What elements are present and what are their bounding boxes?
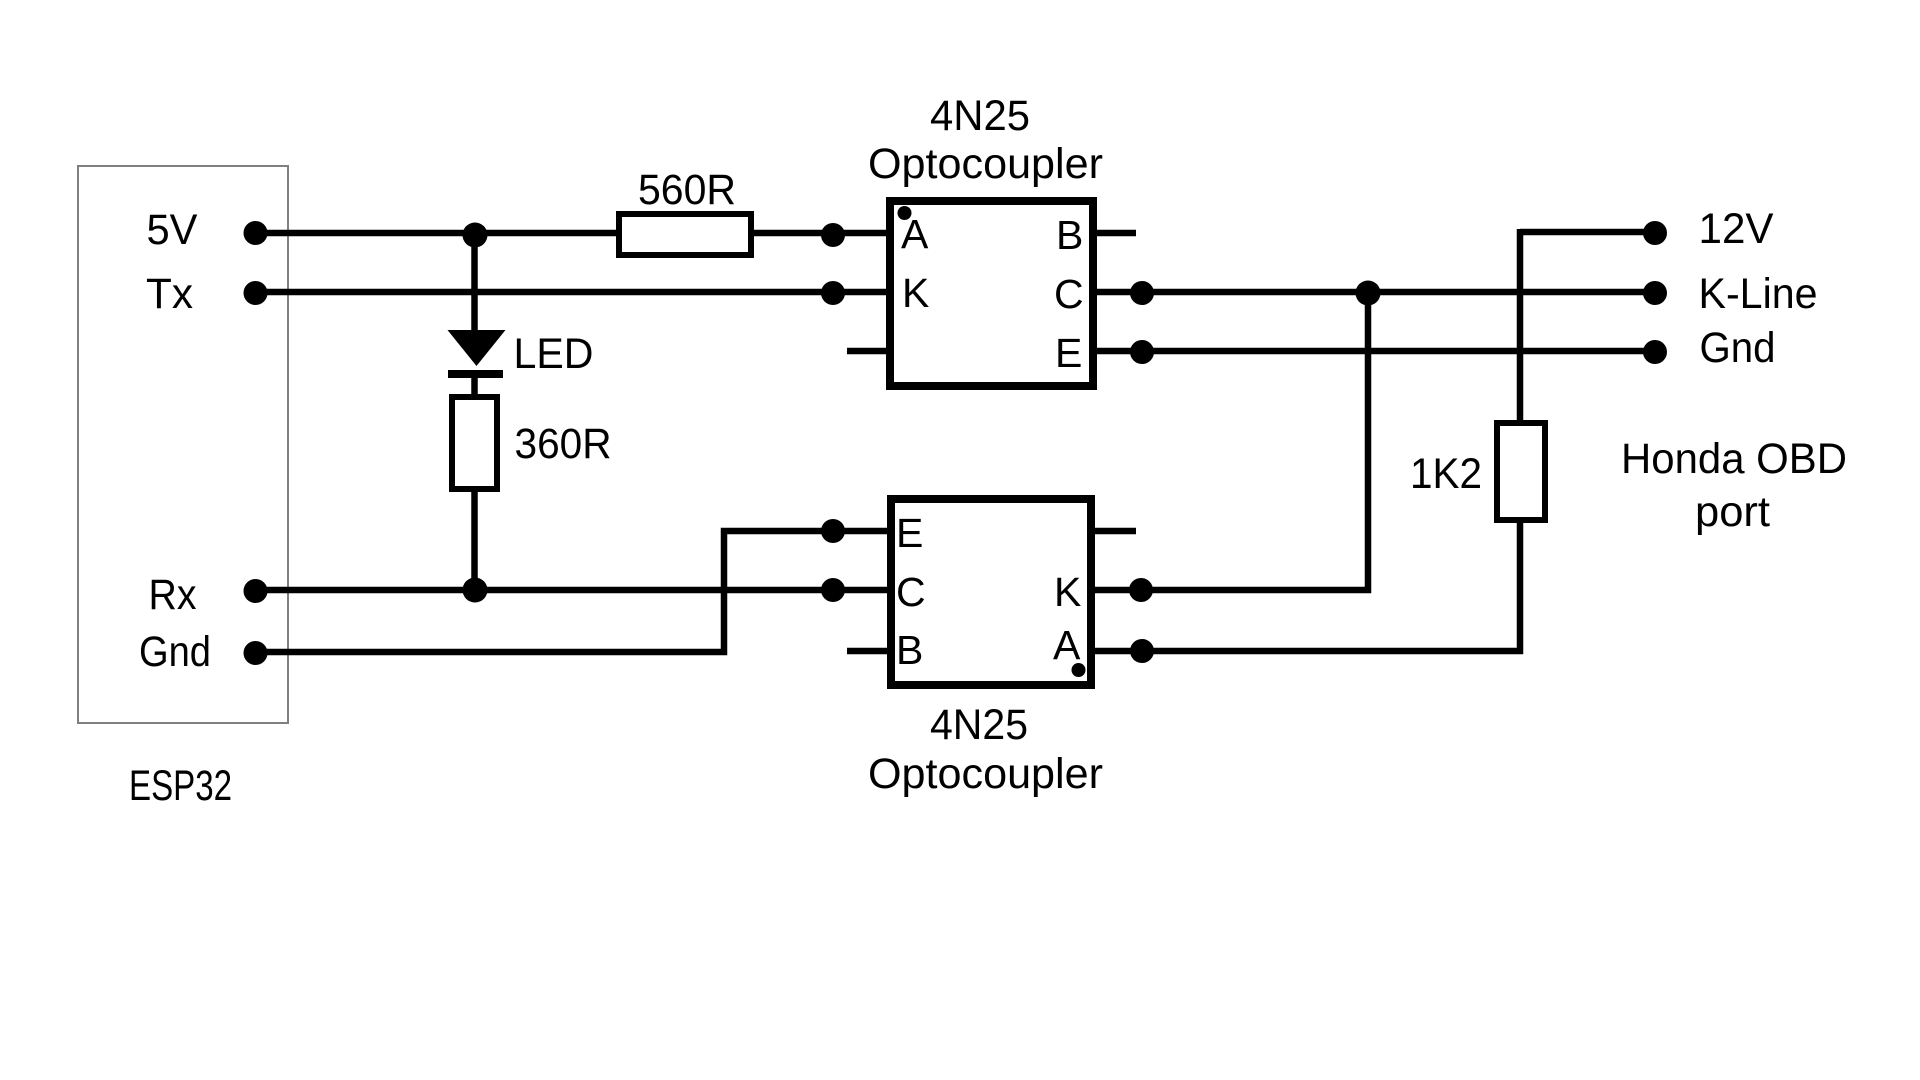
node opto1 C out bbox=[1130, 281, 1154, 305]
wire 5V to 560R bbox=[255, 230, 619, 237]
svg-text:E: E bbox=[896, 510, 923, 556]
node opto2 C bbox=[821, 578, 845, 602]
node opto1 E out bbox=[1130, 340, 1154, 364]
svg-text:C: C bbox=[896, 569, 926, 615]
svg-text:560R: 560R bbox=[638, 166, 736, 214]
resistor 1K2 bbox=[1497, 423, 1545, 520]
svg-text:A: A bbox=[901, 211, 929, 257]
wire 12V to pullup column bbox=[1520, 229, 1655, 236]
svg-text:Optocoupler: Optocoupler bbox=[868, 140, 1103, 188]
U2 pin-1 marker bbox=[1072, 663, 1086, 677]
terminal Rx bbox=[244, 579, 268, 603]
svg-text:port: port bbox=[1695, 488, 1770, 536]
resistor 560R bbox=[619, 214, 751, 255]
node opto1 K bbox=[821, 281, 845, 305]
svg-text:K: K bbox=[902, 270, 929, 316]
wire 5V junction down to LED bbox=[471, 233, 478, 333]
optocoupler U2 body bbox=[891, 499, 1091, 685]
wire opto2 K to K-Line junction bbox=[1091, 293, 1368, 590]
U1 left bottom stub bbox=[847, 348, 890, 355]
U2 pin B stub bbox=[847, 648, 891, 655]
terminal 5V bbox=[244, 221, 268, 245]
svg-text:5V: 5V bbox=[147, 206, 198, 254]
node K-Line junction bbox=[1356, 281, 1381, 306]
svg-text:K-Line: K-Line bbox=[1699, 270, 1818, 318]
wire LED to 360R bbox=[471, 374, 478, 397]
wire 360R to Rx line bbox=[471, 489, 478, 590]
svg-text:Gnd: Gnd bbox=[1700, 324, 1776, 372]
svg-text:K: K bbox=[1054, 569, 1081, 615]
terminal 12V bbox=[1643, 221, 1667, 245]
svg-text:4N25: 4N25 bbox=[930, 701, 1028, 749]
svg-text:Gnd: Gnd bbox=[139, 628, 211, 676]
node Rx junction bbox=[463, 578, 488, 603]
diode LED bbox=[448, 330, 506, 374]
svg-text:Optocoupler: Optocoupler bbox=[868, 750, 1103, 798]
svg-text:Rx: Rx bbox=[149, 571, 197, 619]
svg-text:B: B bbox=[896, 627, 923, 673]
wire opto2 A to pullup column bbox=[1091, 648, 1523, 655]
U1 pin B stub bbox=[1093, 230, 1136, 237]
resistor 360R bbox=[452, 397, 497, 489]
svg-text:1K2: 1K2 bbox=[1410, 450, 1482, 498]
svg-text:E: E bbox=[1055, 330, 1082, 376]
svg-text:4N25: 4N25 bbox=[930, 92, 1030, 140]
svg-text:360R: 360R bbox=[515, 420, 612, 468]
svg-text:LED: LED bbox=[514, 330, 594, 378]
node opto2 K out bbox=[1129, 578, 1153, 602]
node opto1 A bbox=[821, 223, 845, 247]
wire Tx to opto1 pin K bbox=[255, 289, 890, 296]
optocoupler U1 body bbox=[890, 201, 1093, 386]
wire 560R to opto1 pin A bbox=[751, 230, 890, 237]
wire opto1 C to K-Line terminal bbox=[1093, 289, 1655, 296]
svg-text:A: A bbox=[1053, 622, 1081, 668]
U2 right top stub bbox=[1091, 528, 1136, 535]
terminal Gnd (ESP32) bbox=[244, 641, 268, 665]
wire opto1 E to Gnd terminal bbox=[1093, 348, 1655, 355]
svg-text:C: C bbox=[1054, 271, 1084, 317]
svg-text:B: B bbox=[1056, 212, 1083, 258]
node 5V junction bbox=[463, 223, 488, 248]
svg-text:Honda OBD: Honda OBD bbox=[1621, 435, 1847, 483]
terminal Gnd (OBD) bbox=[1643, 340, 1667, 364]
wire Rx to opto2 pin C bbox=[255, 587, 890, 594]
ESP32 module box bbox=[78, 166, 288, 723]
node opto2 A out bbox=[1130, 639, 1154, 663]
wire pullup column lower bbox=[1517, 520, 1524, 654]
svg-text:ESP32: ESP32 bbox=[129, 762, 232, 810]
wire pullup column upper bbox=[1517, 229, 1524, 423]
terminal Tx bbox=[244, 281, 268, 305]
terminal K-Line bbox=[1643, 281, 1667, 305]
wire Gnd to opto2 pin E (with jog) bbox=[255, 531, 890, 652]
U1 pin-1 marker bbox=[898, 206, 912, 220]
svg-text:12V: 12V bbox=[1699, 205, 1774, 253]
node opto2 E bbox=[821, 519, 845, 543]
svg-text:Tx: Tx bbox=[146, 270, 193, 318]
